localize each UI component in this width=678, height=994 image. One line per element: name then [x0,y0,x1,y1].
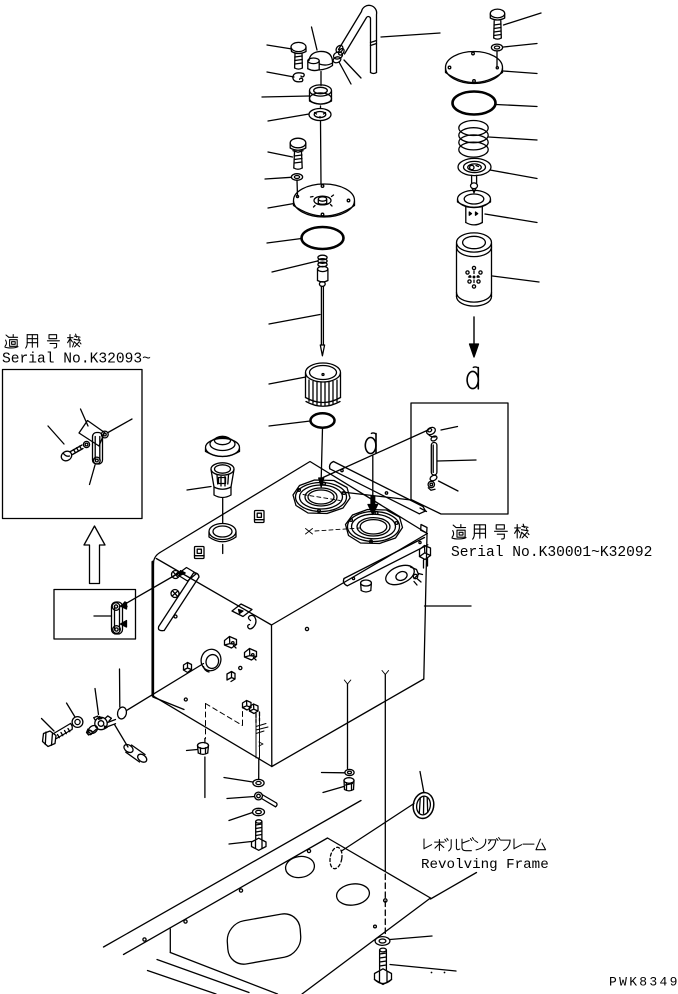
leader from bolt [504,13,542,25]
filler strainer cup [211,463,234,498]
spacer cylinder [361,580,372,592]
frame plug [344,778,354,791]
wire O-ring to tank opening [319,428,324,487]
leader to frame washer [322,772,345,774]
strip end bracket [420,508,427,533]
valve elbow [87,724,99,735]
wire washer to plate [296,180,299,196]
gauge bolt lower [171,590,179,598]
element cover O-ring [453,92,496,115]
wire ring to tank [222,545,224,554]
detail leader to upper-right [108,419,132,433]
frame bolt holes [143,938,146,941]
frame mount line upper (x347) [344,680,351,769]
svg-text:PWK8349: PWK8349 [609,975,678,990]
short leader at corner [153,697,184,710]
gasket oval [116,706,127,720]
leaders from fitting [339,62,351,84]
block C [227,672,235,682]
leader slot to grommet [342,804,415,852]
gauge bracket on tank [177,568,197,582]
top reinforcement strip [330,462,426,514]
leader to valve body [95,689,99,715]
frame bottom-front edge [170,953,277,994]
leader to O-ring [267,239,302,244]
detail bracket plate [79,421,105,447]
hose nipple [122,743,148,764]
breather tube (J pipe) [337,5,376,73]
leader to mount washer 2 [229,813,253,821]
tank right leader [425,605,472,607]
detail sight gauge [93,431,109,464]
drain valve body [90,716,116,732]
leader from spring [272,261,318,272]
frame bolt washer [375,937,390,946]
tank left edge (bold) [151,562,154,696]
svg-text:Serial No.K32093~: Serial No.K32093~ [2,352,151,368]
leader gauge fitting [441,427,458,431]
frame skirt lines [157,960,249,993]
breather cover bolt [291,42,306,69]
leader to gasket [119,669,121,707]
nut pair D [243,701,260,723]
hose hook [248,615,256,629]
leader to drain fitting [187,750,198,751]
wire washer to cover [496,51,498,67]
clip square 2 [195,547,205,559]
drain fitting [198,743,209,755]
frame washer (x347) [345,769,354,775]
leader valve to suction flange [127,664,204,711]
dots [431,972,433,974]
label a (right) [467,367,478,389]
tank bottom-left edge [153,696,272,767]
wire neck to washer to plate [320,106,322,109]
element cover plate [446,52,503,84]
small position box [54,590,136,640]
cover O-ring [302,227,344,249]
wire cup to ring [222,499,224,524]
text 適用号機 (right) [452,524,529,539]
filter cover plate [294,184,355,217]
leader to grommet [420,772,424,793]
label a (tank) [365,433,376,454]
leader from spring [489,137,538,140]
filler neck collar [310,85,332,104]
gauge bolt upper [172,571,180,579]
leader from O-ring [496,105,537,107]
frame bolt [375,948,392,984]
detail leader lower-left [48,426,64,444]
wire valve to nipple [115,725,129,748]
leader to mount bolt [229,842,251,845]
breather cap [308,51,333,70]
corner bolt block [420,546,431,569]
frame left thickness edge [169,929,171,953]
leader to cover bolt [268,152,293,157]
leader to seal washer [268,114,309,121]
position gauge leader [94,615,112,617]
hose clamp bracket [383,561,423,588]
leader from valve [490,170,537,179]
leader to frame edge [431,873,477,900]
tank mount washer 2 [253,808,265,815]
leader to cup [187,487,211,491]
clip square 1 [255,511,265,523]
leader gauge bottom [439,481,459,491]
suction flange on tank [198,647,223,674]
service flange rings (right) [315,512,400,543]
tank top face outline [153,462,427,626]
text 適用号機 (left) [5,334,81,348]
long leader to tank (lower) [342,492,411,500]
leader to strainer O-ring [269,421,310,426]
leader to frame plug [323,787,344,793]
frame rail 1 [104,801,362,948]
spring small [318,255,327,267]
gauge tube [431,443,437,476]
filler neck ring [209,524,236,542]
frame rail 2 / plate top edge [124,838,328,955]
frame mount line lower (x385) [382,671,389,935]
cross mark [306,529,313,535]
leader to valve washer [67,703,76,717]
right washer [491,44,502,51]
leader from filter [493,276,540,282]
sight gauge strip on tank [158,573,199,631]
flag bracket [232,604,252,617]
leader from seat [485,214,537,223]
leader to breather bolt [267,45,292,49]
flange bolt [184,663,192,673]
drain valve bolt [43,724,73,747]
grommet slot (dashed) [328,846,343,869]
tank mount washer 1 [253,779,264,786]
assembly arrow down [470,317,479,357]
standpipe double line [256,712,268,758]
tie-down bar [343,538,427,586]
leader to rod [269,315,320,325]
frame front-right edge [302,898,431,994]
leader to pin [227,797,255,799]
small o mark 2 [239,666,242,669]
tank bottom-right edge [272,679,424,767]
small o mark 3 [305,627,308,630]
leader from cap [312,27,318,50]
text revolving katakana [424,838,546,851]
valve sleeve [318,266,328,282]
svg-text:Serial No.K30001~K32092: Serial No.K30001~K32092 [451,545,652,561]
up arrow outline [84,526,105,584]
gauge bottom fitting [428,474,438,490]
right detail box [411,403,508,514]
tank mount bolt [252,820,267,851]
breather cap (on tank) [206,436,240,456]
valve seat [458,190,491,225]
strainer [306,363,341,406]
strainer O-ring [311,413,335,427]
detail washer [83,441,89,447]
element spring [459,121,488,158]
small o mark [184,698,187,701]
wire to mount washer [258,758,260,779]
hidden drain lines (dashed) [206,703,243,739]
filler flange plate (left) [293,480,350,514]
frame back-right edge [328,838,431,898]
service flange plate (right) [346,510,403,544]
cotter pin [255,792,277,807]
leader to mount washer 1 [224,778,253,783]
svg-text:Revolving Frame: Revolving Frame [421,857,549,873]
leader to strainer [269,377,306,384]
service arrow (black) [368,456,378,515]
valve washer ring [72,717,83,728]
leader from tube to right [381,33,440,37]
long leader to tank (upper) [323,431,427,478]
cover bolt [290,138,306,169]
detail leader from top [81,409,89,426]
filler flange rings (left) [296,482,347,512]
right column bolt [490,9,504,39]
grommet [411,791,436,820]
detail leader down [90,465,96,485]
leader to washer [265,177,291,179]
pilot rod [319,282,325,356]
tank front edge [271,625,273,767]
detail screw [60,445,83,463]
frame hole 2 [284,855,316,880]
position gauge [112,602,127,634]
leader from cover plate [503,71,537,74]
leader to valve bolt [42,719,55,732]
tank right edge [424,535,427,680]
seal washer [309,109,331,121]
leader gauge tube [438,460,477,461]
leader to snap ring [267,72,294,77]
leader from washer [504,44,538,48]
leader to filler neck [262,96,309,97]
drain pipe line [204,739,206,744]
leader from frame bolt [390,965,456,972]
gauge top fitting [425,426,437,442]
filter element [457,233,492,306]
cover bolt washer [291,174,302,181]
wire cap to neck [320,72,322,86]
long leader tank to position box [121,571,185,607]
big service hole [222,911,307,967]
leader from frame washer [390,936,432,940]
bypass valve [458,158,491,192]
left detail box [3,370,143,519]
leader to cover plate [268,204,294,209]
frame hole 3 [335,882,371,907]
snap ring [293,73,304,82]
block A [225,637,237,649]
tube banjo fitting [332,44,344,64]
block B [245,649,257,661]
